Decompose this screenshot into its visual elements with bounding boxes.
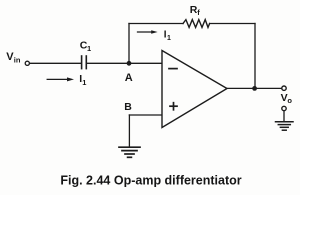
wire node A up [128,24,130,64]
svg-text:o: o [287,96,292,105]
label C1 [80,40,91,53]
wire down to output node [254,24,256,89]
minus sign [169,68,177,70]
output node [252,86,257,91]
label Vin [6,51,21,65]
svg-text:f: f [197,8,200,17]
node A [127,61,132,66]
svg-text:1: 1 [82,78,86,87]
label Rf [190,4,201,17]
svg-text:1: 1 [167,35,171,42]
label I1 input [79,73,86,87]
current arrow I1 input [47,77,74,81]
resistor Rf [183,20,210,28]
wire C1 to op-amp inverting input [87,62,162,64]
label I1 feedback [164,29,171,42]
wire lower terminal to ground [283,111,285,122]
terminal Vo [282,86,286,90]
ground right [276,122,294,130]
wire B down to ground [128,115,130,147]
svg-text:Fig. 2.44 Op-amp differentiato: Fig. 2.44 Op-amp differentiator [60,173,241,187]
current arrow I1 feedback [138,30,158,34]
terminal lower [282,106,286,110]
wire B to op-amp noninverting input [129,114,161,116]
op-amp U1 [162,51,227,128]
svg-text:1: 1 [87,44,91,53]
svg-text:A: A [125,72,133,84]
svg-text:in: in [14,56,21,65]
svg-text:B: B [124,101,132,113]
wire Vin to C1 [30,62,81,64]
wire resistor to right corner [210,23,255,25]
ground left [119,147,140,157]
output wire [227,87,282,89]
plus sign [170,103,177,110]
terminal Vin [25,61,29,65]
label Vo [281,92,293,105]
wire top to resistor [129,23,183,25]
capacitor C1 [82,56,87,69]
